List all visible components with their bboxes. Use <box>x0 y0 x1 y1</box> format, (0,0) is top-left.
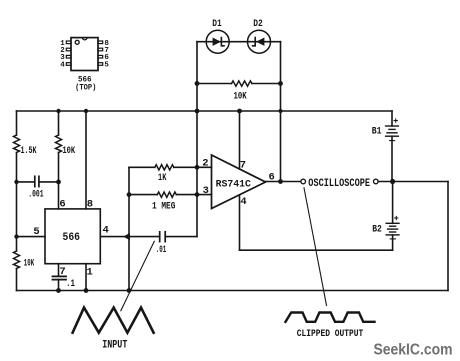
svg-text:B1: B1 <box>372 126 382 138</box>
svg-text:4: 4 <box>60 62 65 70</box>
svg-text:4: 4 <box>240 196 246 208</box>
svg-text:7: 7 <box>59 266 65 278</box>
svg-text:566: 566 <box>63 232 81 244</box>
svg-text:.01: .01 <box>156 244 167 256</box>
svg-text:10K: 10K <box>24 258 35 270</box>
svg-text:10K: 10K <box>234 90 248 102</box>
svg-text:INPUT: INPUT <box>102 340 127 352</box>
svg-text:.001: .001 <box>28 189 43 201</box>
svg-text:B2: B2 <box>372 224 382 236</box>
svg-text:(TOP): (TOP) <box>75 82 96 92</box>
svg-text:SeekIC.com: SeekIC.com <box>374 342 453 359</box>
svg-text:1K: 1K <box>158 172 167 184</box>
svg-text:3: 3 <box>203 185 209 197</box>
svg-text:RS741C: RS741C <box>216 179 252 191</box>
svg-text:6: 6 <box>269 172 275 184</box>
svg-text:7: 7 <box>240 159 246 171</box>
svg-text:2: 2 <box>202 158 208 170</box>
svg-text:1 MEG: 1 MEG <box>152 201 175 213</box>
svg-text:6: 6 <box>59 199 65 211</box>
svg-text:CLIPPED OUTPUT: CLIPPED OUTPUT <box>297 328 363 340</box>
svg-text:1: 1 <box>87 267 93 279</box>
svg-text:D1: D1 <box>212 18 222 30</box>
svg-text:5: 5 <box>104 62 109 70</box>
svg-text:1.5K: 1.5K <box>21 145 37 157</box>
svg-text:5: 5 <box>33 226 39 238</box>
svg-text:8: 8 <box>87 198 93 210</box>
svg-text:D2: D2 <box>253 18 263 30</box>
svg-text:OSCILLOSCOPE: OSCILLOSCOPE <box>308 178 370 190</box>
svg-text:4: 4 <box>103 225 109 237</box>
svg-text:.1: .1 <box>66 279 75 290</box>
svg-text:10K: 10K <box>62 145 75 157</box>
